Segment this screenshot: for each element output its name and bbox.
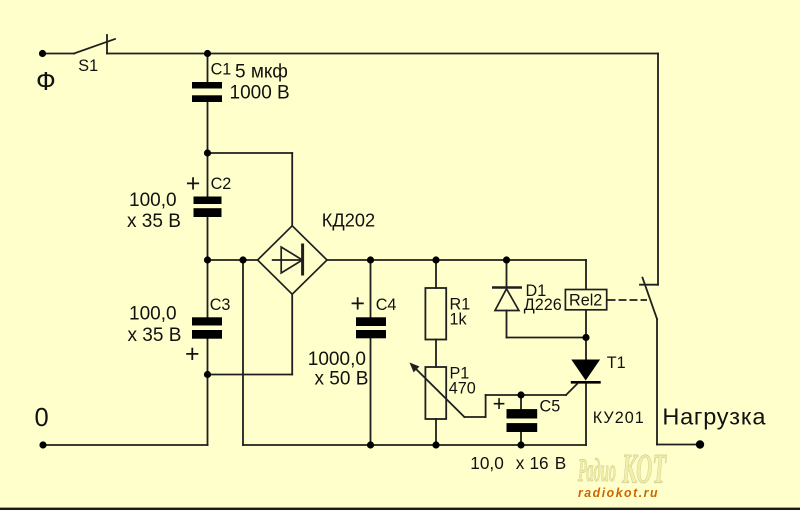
svg-text:0: 0 xyxy=(35,404,49,432)
svg-text:+: + xyxy=(493,391,506,416)
svg-text:x: x xyxy=(516,453,525,473)
svg-text:+: + xyxy=(186,170,201,198)
svg-text:C2: C2 xyxy=(211,175,232,193)
svg-text:C5: C5 xyxy=(540,398,561,416)
svg-text:Радио: Радио xyxy=(578,453,616,489)
svg-text:Д226: Д226 xyxy=(524,296,562,314)
svg-text:+: + xyxy=(350,289,365,317)
svg-text:S1: S1 xyxy=(78,57,98,75)
svg-text:В: В xyxy=(555,453,566,473)
svg-text:100,0: 100,0 xyxy=(129,304,177,325)
svg-text:10,0: 10,0 xyxy=(470,453,503,473)
svg-text:x 50 В: x 50 В xyxy=(315,369,369,390)
svg-text:КУ201: КУ201 xyxy=(593,409,645,427)
svg-text:КД202: КД202 xyxy=(322,211,375,231)
svg-text:C4: C4 xyxy=(376,296,397,314)
svg-text:x 35 В: x 35 В xyxy=(127,211,181,232)
svg-text:Ф: Ф xyxy=(36,66,56,96)
svg-text:Нагрузка: Нагрузка xyxy=(662,404,766,430)
svg-text:radiokot.ru: radiokot.ru xyxy=(578,485,659,500)
svg-text:x 35 В: x 35 В xyxy=(128,325,182,346)
svg-text:1k: 1k xyxy=(450,311,468,329)
svg-text:C3: C3 xyxy=(210,296,231,314)
svg-text:T1: T1 xyxy=(607,354,626,372)
svg-text:1000,0: 1000,0 xyxy=(308,349,366,370)
svg-text:C1: C1 xyxy=(211,61,232,79)
svg-text:16: 16 xyxy=(530,453,549,473)
svg-text:100,0: 100,0 xyxy=(129,190,177,211)
svg-text:Rel2: Rel2 xyxy=(569,291,602,309)
svg-text:+: + xyxy=(185,340,200,368)
svg-text:1000 В: 1000 В xyxy=(230,82,290,103)
svg-text:470: 470 xyxy=(449,380,476,398)
svg-text:5 мкф: 5 мкф xyxy=(235,62,288,83)
